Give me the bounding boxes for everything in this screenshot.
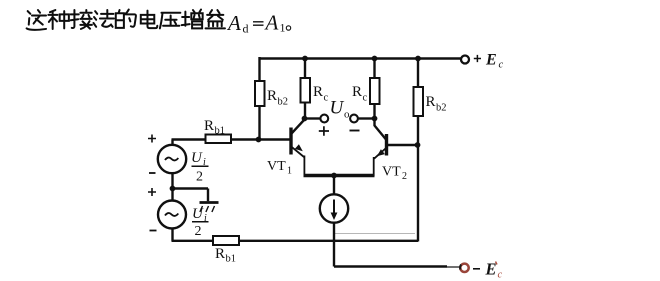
terminal Uo-	[350, 115, 373, 131]
terminal +Ec	[461, 52, 504, 71]
svg-text:2: 2	[195, 224, 202, 239]
title caption 这种接法的电压增益 Ad = A1	[27, 10, 225, 30]
svg-text:A: A	[226, 11, 241, 35]
svg-text:R: R	[352, 84, 362, 100]
terminal -Ec	[460, 260, 502, 281]
svg-text:R: R	[215, 246, 225, 262]
char 的	[116, 10, 136, 28]
svg-text:R: R	[267, 88, 277, 104]
svg-text:VT: VT	[382, 165, 401, 180]
char 法	[93, 10, 114, 27]
terminal Uo+	[307, 115, 329, 136]
svg-text:c: c	[324, 93, 329, 104]
char 益	[206, 10, 225, 28]
node base VT1 / Rb2 left	[256, 137, 262, 143]
wire -Ec lead	[334, 265, 447, 267]
svg-text:d: d	[243, 22, 249, 36]
char 压	[160, 13, 181, 29]
wire between sources	[171, 173, 173, 201]
svg-text:c: c	[363, 93, 368, 104]
transistor VT2	[374, 119, 418, 183]
resistor Rb2 (left)	[255, 57, 288, 140]
svg-text:E: E	[485, 260, 497, 279]
node rail-Rc1	[302, 56, 308, 62]
char 接	[71, 10, 92, 29]
svg-text:U: U	[330, 98, 345, 119]
char 增	[182, 10, 203, 29]
char 这	[27, 10, 46, 30]
wire Rb2right-to-bottom	[417, 145, 419, 242]
svg-text:VT: VT	[267, 159, 286, 174]
svg-text:b2: b2	[436, 103, 447, 114]
formula Ad = A1	[226, 11, 291, 36]
node emitter junction	[331, 173, 337, 179]
svg-text:1: 1	[280, 21, 286, 35]
char 种	[48, 10, 69, 29]
svg-text:2: 2	[402, 171, 407, 182]
resistor Rb2 (right)	[414, 59, 447, 146]
wire top +Ec rail	[260, 57, 462, 60]
svg-text:U: U	[191, 150, 203, 166]
svg-text:R: R	[204, 118, 214, 134]
svg-text:R: R	[426, 94, 436, 110]
svg-text:b2: b2	[278, 97, 289, 108]
svg-text:c: c	[499, 60, 504, 71]
transistor VT1	[267, 120, 305, 177]
ground	[173, 189, 219, 213]
resistor Rc (left)	[301, 59, 329, 119]
svg-text:2: 2	[196, 170, 203, 185]
resistor Rb1 (bottom)	[213, 236, 239, 265]
char 电	[141, 11, 158, 29]
source Ui/2 (top)	[148, 135, 209, 185]
node collector VT2	[372, 116, 378, 122]
svg-text:b1: b1	[215, 126, 226, 137]
svg-text:E: E	[485, 52, 497, 69]
node rail-Rc2	[372, 56, 378, 62]
svg-text:R: R	[313, 84, 323, 100]
node base VT2 / Rb2 right	[415, 142, 421, 148]
svg-text:c: c	[498, 270, 503, 281]
svg-text:U: U	[192, 206, 204, 222]
resistor Rb1 (top)	[172, 118, 291, 143]
node mid sources	[170, 186, 176, 192]
current source I	[320, 176, 348, 267]
wire bottom return	[172, 229, 419, 241]
node rail-Rb2right	[415, 56, 421, 62]
resistor Rc (right)	[352, 59, 380, 119]
label Uo	[330, 98, 351, 121]
svg-text:1: 1	[287, 166, 292, 177]
node collector VT1	[302, 116, 308, 122]
svg-text:A: A	[264, 11, 279, 35]
source Ui/2 (bottom)	[148, 188, 209, 239]
wire emitter rail	[304, 174, 375, 177]
svg-text:b1: b1	[226, 254, 237, 265]
